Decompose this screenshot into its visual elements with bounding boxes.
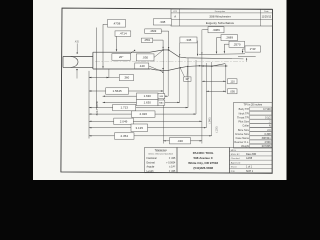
svg-text:30°: 30° bbox=[185, 77, 189, 81]
dot near body top right bbox=[134, 50, 135, 51]
black letterbox background bbox=[0, 0, 320, 180]
dim row .430 bbox=[163, 140, 202, 142]
svg-text:2.049: 2.049 bbox=[120, 119, 128, 123]
dim box .095 bbox=[228, 89, 238, 94]
throat top line bbox=[199, 53, 245, 56]
leade line right bbox=[238, 56, 256, 58]
svg-text:.2689: .2689 bbox=[225, 36, 233, 40]
extension line x188 bbox=[187, 58, 189, 108]
bore top line bbox=[179, 57, 232, 59]
svg-text:Throat TPI: Throat TPI bbox=[237, 115, 249, 119]
dim box .4609 bbox=[145, 29, 162, 34]
extension line x211 bbox=[211, 62, 213, 136]
dim box 20 deg shoulder with leader bbox=[126, 51, 134, 57]
junction dots on bulge bbox=[162, 49, 164, 51]
spec table TPI in 20 inches bbox=[234, 103, 273, 149]
centerline dashed bbox=[95, 60, 244, 62]
dim box .430 bbox=[170, 138, 191, 144]
dim box 1.630 MAX bbox=[137, 99, 159, 105]
dim row 2.049 bbox=[89, 120, 202, 122]
dim box 1.713 bbox=[113, 104, 136, 110]
leade up arrow bbox=[246, 58, 248, 61]
svg-text:1°30': 1°30' bbox=[250, 47, 257, 51]
dim box .338 bbox=[180, 37, 197, 43]
junction dots on bore bottom bbox=[180, 67, 181, 68]
leader for .338 bbox=[196, 41, 198, 55]
svg-text:Tolerances: Tolerances bbox=[155, 149, 168, 152]
svg-text:.030: .030 bbox=[142, 55, 148, 59]
bolt face datum vertical line bbox=[96, 28, 98, 110]
svg-text:Unless Otherwise Specified:: Unless Otherwise Specified: bbox=[148, 153, 173, 156]
dim box 3.135 bbox=[131, 124, 148, 132]
svg-text:Body TPI: Body TPI bbox=[239, 107, 250, 111]
svg-text:4.500: 4.500 bbox=[264, 141, 271, 144]
svg-text:Decimal: Decimal bbox=[147, 162, 156, 164]
svg-text:± .005: ± .005 bbox=[169, 158, 176, 160]
svg-text:Angular: Angular bbox=[147, 166, 155, 169]
dim box .030 with leader bbox=[154, 51, 162, 58]
white drawing sheet bbox=[33, 0, 287, 180]
svg-text:1.630: 1.630 bbox=[144, 101, 152, 105]
svg-text:Approved: Approved bbox=[231, 161, 241, 164]
dim box .4714 bbox=[115, 31, 131, 36]
title fields block bbox=[230, 148, 273, 173]
leader for .2689 bbox=[217, 38, 222, 53]
svg-text:SCH 1: SCH 1 bbox=[246, 170, 254, 173]
svg-text:MIN: MIN bbox=[160, 96, 164, 98]
dim row 2.026 bbox=[89, 113, 196, 115]
reamer body rectangle bbox=[93, 52, 150, 69]
svg-text:Fractional: Fractional bbox=[147, 157, 158, 160]
svg-text:.140: .140 bbox=[139, 64, 145, 68]
dim box .3089 bbox=[208, 27, 224, 33]
dim box .360 bbox=[119, 75, 133, 81]
svg-text:Bore Size: Bore Size bbox=[238, 128, 250, 132]
dim box 1 deg 30 bbox=[245, 46, 261, 52]
svg-text:+ 0.0004: + 0.0004 bbox=[166, 162, 176, 164]
svg-text:0.308: 0.308 bbox=[264, 133, 271, 136]
svg-text:3.135: 3.135 bbox=[135, 126, 143, 130]
dim box 2.049 bbox=[114, 118, 134, 124]
svg-text:(.100): (.100) bbox=[216, 126, 218, 132]
dim box 2.026 bbox=[132, 111, 156, 117]
bore bottom line bbox=[180, 64, 225, 68]
revision table bbox=[171, 9, 272, 26]
extension line x163 bbox=[162, 51, 164, 144]
svg-text:.338: .338 bbox=[186, 38, 192, 42]
company block PACIFIC TOOL bbox=[177, 148, 230, 173]
svg-text:308 Win: 308 Win bbox=[262, 137, 272, 140]
svg-text:± .005: ± .005 bbox=[169, 171, 176, 173]
dim box 1.630 MIN bbox=[137, 93, 159, 99]
dim row 1.5645 bbox=[89, 90, 163, 92]
svg-text:.430: .430 bbox=[177, 139, 183, 143]
svg-text:.435: .435 bbox=[74, 42, 79, 44]
extension line x108.9 bbox=[108, 69, 110, 78]
svg-text:(541)826-5808: (541)826-5808 bbox=[193, 166, 213, 170]
dim row 1.713 bbox=[89, 107, 188, 109]
extension line x201.9 bbox=[201, 30, 203, 144]
leader for .4714 bbox=[116, 36, 118, 50]
svg-text:(.040): (.040) bbox=[209, 117, 211, 123]
dim box .308 bbox=[153, 19, 171, 25]
drawing border frame bbox=[61, 8, 273, 173]
svg-text:11/29/12: 11/29/12 bbox=[262, 15, 272, 18]
throat dim line y66 bbox=[201, 65, 227, 67]
svg-text:A: A bbox=[174, 15, 176, 19]
dim .110 row bbox=[202, 80, 226, 82]
leader for 1-30 throat angle bbox=[243, 49, 245, 52]
dim .095 row bbox=[206, 90, 226, 92]
pilot left end bbox=[62, 57, 64, 68]
throat top extension bbox=[232, 58, 244, 60]
svg-text:Length: Length bbox=[147, 170, 155, 173]
svg-text:LTR: LTR bbox=[173, 11, 177, 13]
svg-text:1.5645: 1.5645 bbox=[113, 89, 123, 93]
pilot lower tick bbox=[76, 69, 77, 70]
svg-text:.095: .095 bbox=[230, 89, 236, 93]
svg-text:007/305: 007/305 bbox=[262, 145, 271, 148]
svg-text:2.026: 2.026 bbox=[139, 112, 147, 116]
svg-text:Evgeniy Scherbakov: Evgeniy Scherbakov bbox=[206, 21, 235, 25]
extension line x206 bbox=[205, 63, 207, 128]
dim row 1.630 MIN bbox=[103, 95, 168, 97]
svg-text:308 Winchester: 308 Winchester bbox=[209, 15, 231, 19]
pilot dome arc bbox=[71, 57, 78, 68]
svg-text:Pilot Size: Pilot Size bbox=[238, 120, 249, 124]
dim box 30 min with two leaders bbox=[181, 69, 185, 77]
dim row .360 bbox=[89, 77, 109, 79]
svg-text:AJ/08: AJ/08 bbox=[246, 157, 253, 160]
dim box .4551 bbox=[141, 38, 152, 42]
pilot tube top and bottom lines bbox=[63, 56, 93, 58]
svg-text:.4551: .4551 bbox=[144, 38, 151, 42]
svg-text:Reamer O.L.: Reamer O.L. bbox=[234, 140, 249, 144]
extension line x168 bbox=[167, 51, 169, 97]
svg-text:Dave B/R: Dave B/R bbox=[246, 153, 257, 156]
svg-text:20°: 20° bbox=[119, 55, 124, 59]
svg-text:N: N bbox=[269, 125, 271, 128]
dim row 1.630 MAX bbox=[103, 101, 180, 103]
extension line x89 bbox=[88, 71, 90, 139]
svg-text:MAX: MAX bbox=[159, 101, 164, 104]
leader for .4738 bbox=[103, 24, 108, 67]
dim box .110 bbox=[228, 79, 238, 84]
extension line x179.7 bbox=[179, 43, 181, 103]
svg-text:TPI in 20 inches: TPI in 20 inches bbox=[243, 103, 262, 107]
svg-text:White City, OR 97503: White City, OR 97503 bbox=[188, 161, 218, 165]
tolerance block bbox=[145, 148, 178, 173]
svg-text:Description: Description bbox=[215, 10, 226, 13]
dim box .2570 bbox=[229, 41, 245, 47]
dim row 3.135 bbox=[89, 127, 206, 129]
leader for .3089 bbox=[202, 29, 208, 31]
extension line x196 bbox=[195, 60, 197, 114]
svg-text:MFG.: MFG. bbox=[231, 150, 237, 152]
svg-text:1 of 1: 1 of 1 bbox=[246, 166, 253, 169]
dim box .4738 bbox=[108, 20, 126, 28]
dim box .2689 bbox=[221, 35, 238, 41]
svg-text:0.7100: 0.7100 bbox=[263, 108, 271, 111]
svg-text:BOLT FACE: BOLT FACE bbox=[95, 101, 99, 115]
svg-text:P/N: P/N bbox=[231, 171, 235, 173]
svg-text:1.630: 1.630 bbox=[144, 94, 152, 98]
svg-text:Case Name: Case Name bbox=[236, 136, 250, 140]
svg-text:ENG. BY: ENG. BY bbox=[231, 154, 240, 156]
svg-text:.4609: .4609 bbox=[150, 29, 157, 33]
dim box 2.354 bbox=[115, 133, 135, 139]
bulge top outline bbox=[150, 50, 179, 57]
svg-text:PACIFIC TOOL: PACIFIC TOOL bbox=[193, 151, 214, 155]
bulge bottom outline bbox=[150, 68, 180, 71]
svg-text:Collar: Collar bbox=[242, 124, 249, 128]
svg-text:.3089: .3089 bbox=[212, 28, 220, 32]
svg-text:Checked: Checked bbox=[231, 158, 240, 160]
svg-text:1.713: 1.713 bbox=[120, 106, 128, 110]
leader for .4609 bbox=[161, 31, 168, 48]
svg-text:598 Avenue C: 598 Avenue C bbox=[193, 156, 213, 160]
svg-text:.360: .360 bbox=[124, 76, 130, 80]
extension line x225 bbox=[225, 64, 227, 93]
svg-text:.308: .308 bbox=[159, 20, 165, 24]
dim box .140 with leader bbox=[149, 66, 163, 72]
leader for .4551 bbox=[153, 40, 163, 49]
svg-text:.110: .110 bbox=[230, 79, 236, 83]
svg-text:2.354: 2.354 bbox=[120, 134, 128, 138]
dim row 2.354 bbox=[89, 135, 212, 137]
svg-text:.2570: .2570 bbox=[233, 42, 241, 46]
svg-text:0 1/2: 0 1/2 bbox=[265, 116, 271, 119]
svg-text:.4714: .4714 bbox=[119, 32, 127, 36]
svg-text:± 1/4°: ± 1/4° bbox=[169, 167, 175, 169]
leader for .2570 bbox=[224, 44, 229, 52]
svg-text:Neck TPI: Neck TPI bbox=[239, 111, 250, 115]
dim box 1.5645 bbox=[106, 88, 129, 94]
svg-text:Groove Size: Groove Size bbox=[235, 132, 250, 136]
svg-text:.4738: .4738 bbox=[113, 21, 121, 25]
svg-text:Sheet: Sheet bbox=[231, 166, 237, 169]
